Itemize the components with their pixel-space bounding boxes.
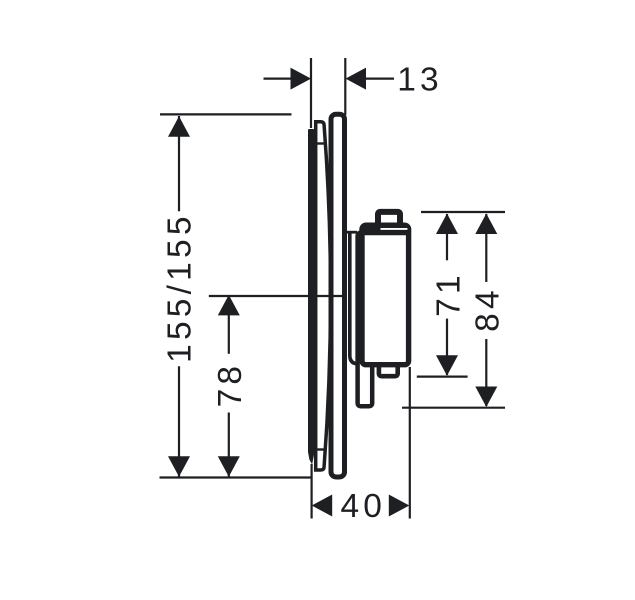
svg-text:13: 13 — [397, 61, 443, 98]
svg-text:71: 71 — [431, 271, 468, 317]
arrow 40 right — [389, 495, 410, 517]
wire 71 dimension line lower segment — [446, 319, 448, 375]
handle cap dark band — [360, 225, 411, 236]
wire 13 right tail — [365, 77, 394, 79]
arrowheads — [168, 68, 497, 517]
wire 84 bottom extension line — [402, 407, 505, 409]
arrow 78 top — [218, 295, 240, 316]
flange collar outer edge — [350, 233, 358, 364]
wire 40 right extension line — [409, 367, 411, 519]
arrow 155 bottom — [168, 456, 190, 477]
arrow 13 right — [346, 68, 367, 90]
wire 155 dimension line upper segment — [178, 116, 180, 211]
wire 155 top extension line — [160, 113, 292, 115]
wire 71 dimension line upper segment — [446, 214, 448, 260]
arrow 40 left — [312, 495, 333, 517]
plate layer C main escutcheon profile — [331, 114, 345, 477]
arrow 71 bottom — [436, 355, 458, 376]
wire 78 dimension line upper segment — [228, 296, 230, 354]
handle body — [362, 225, 409, 365]
wire 84 dimension line upper segment — [485, 214, 487, 282]
arrow 84 top — [475, 214, 497, 235]
flange sleeve connector line — [347, 231, 358, 234]
wire 13 left extension line — [310, 58, 312, 128]
arrow 155 top — [168, 116, 190, 137]
wire 78 top extension line over plate — [209, 295, 346, 297]
arrow 78 bottom — [218, 456, 240, 477]
svg-text:155/155: 155/155 — [162, 212, 199, 363]
svg-text:84: 84 — [470, 286, 507, 332]
arrow 71 top — [436, 214, 458, 235]
wire 13 left tail — [264, 77, 293, 79]
wire 78 dimension line lower segment — [228, 413, 230, 477]
plate layer B top tick — [317, 142, 326, 144]
handle bottom tab — [379, 362, 398, 376]
wire 155 dimension line lower segment — [178, 366, 180, 476]
flange sleeve D — [358, 233, 373, 407]
wire 13 right extension line — [344, 58, 346, 115]
wire 71 bottom extension line — [417, 376, 468, 378]
plate layer B middle escutcheon profile — [316, 122, 331, 470]
wire 40 left extension line — [311, 464, 313, 519]
plate layer B bottom tick — [317, 448, 326, 450]
wire bottom extension line and 40 left extension — [160, 476, 312, 478]
wire 84 dimension line lower segment — [485, 339, 487, 406]
wire: dimension thin lines — [160, 58, 506, 519]
svg-text:78: 78 — [212, 362, 249, 408]
arrow 84 bottom — [475, 387, 497, 408]
arrow 13 left — [291, 68, 312, 90]
handle top tab — [378, 212, 400, 230]
plate layer A wall seal strip — [308, 129, 314, 465]
wire 71 84 top extension line — [421, 211, 505, 213]
svg-text:40: 40 — [340, 488, 386, 525]
handle cap white wedge line — [381, 228, 408, 230]
